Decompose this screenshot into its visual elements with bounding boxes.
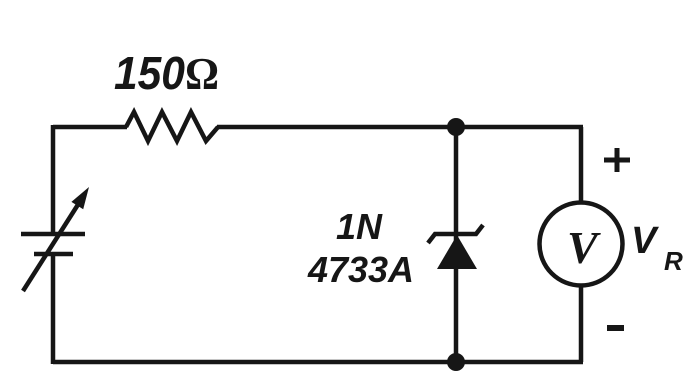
svg-text:V: V: [631, 220, 659, 262]
wire bottom: [53, 360, 583, 365]
variable source arrowhead: [71, 187, 89, 209]
svg-text:1N: 1N: [336, 206, 383, 247]
wire left vertical lower: [51, 254, 56, 364]
wire zener branch vertical: [454, 127, 459, 362]
wire top right segment: [217, 125, 583, 130]
svg-text:150Ω: 150Ω: [114, 47, 219, 99]
svg-text:V: V: [567, 222, 601, 273]
voltmeter U1 circle: [540, 203, 623, 286]
svg-text:4733A: 4733A: [307, 249, 414, 290]
plus polarity mark: [604, 158, 630, 163]
wire left vertical upper: [51, 125, 56, 234]
node junction bottom: [447, 353, 465, 371]
wire top left segment: [53, 125, 127, 130]
wire right vertical upper: [579, 127, 584, 203]
minus polarity mark: [607, 325, 624, 331]
zener diode D1 cathode bar with bends: [428, 225, 483, 243]
resistor R (150 ohm) zigzag: [126, 112, 218, 141]
variable source VS short plate: [34, 252, 73, 257]
variable source arrow shaft: [23, 203, 79, 291]
zener diode D1 anode triangle: [437, 235, 477, 269]
variable source VS long plate: [21, 232, 85, 237]
wire right vertical lower: [579, 286, 584, 362]
svg-text:R: R: [664, 246, 683, 276]
node junction top: [447, 118, 465, 136]
